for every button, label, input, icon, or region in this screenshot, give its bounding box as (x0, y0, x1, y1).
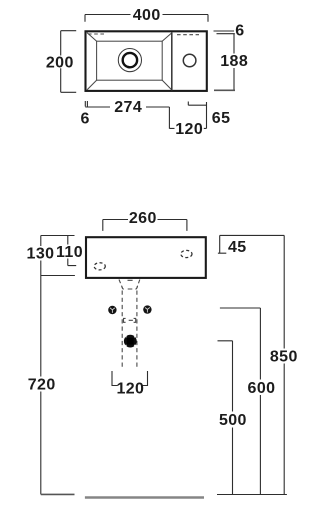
svg-text:260: 260 (129, 210, 157, 227)
svg-text:45: 45 (228, 239, 247, 256)
svg-text:600: 600 (248, 380, 276, 397)
svg-text:120: 120 (116, 380, 144, 397)
svg-text:500: 500 (219, 412, 247, 429)
svg-text:400: 400 (133, 7, 161, 24)
svg-text:6: 6 (235, 22, 244, 39)
svg-text:274: 274 (114, 99, 142, 116)
svg-text:720: 720 (28, 377, 56, 394)
svg-text:120: 120 (175, 121, 203, 138)
svg-text:6: 6 (80, 111, 89, 128)
svg-text:850: 850 (270, 349, 298, 366)
svg-text:188: 188 (220, 53, 248, 70)
svg-text:200: 200 (46, 54, 74, 71)
svg-text:130: 130 (27, 246, 55, 263)
svg-text:110: 110 (56, 244, 83, 261)
svg-text:65: 65 (212, 110, 231, 127)
